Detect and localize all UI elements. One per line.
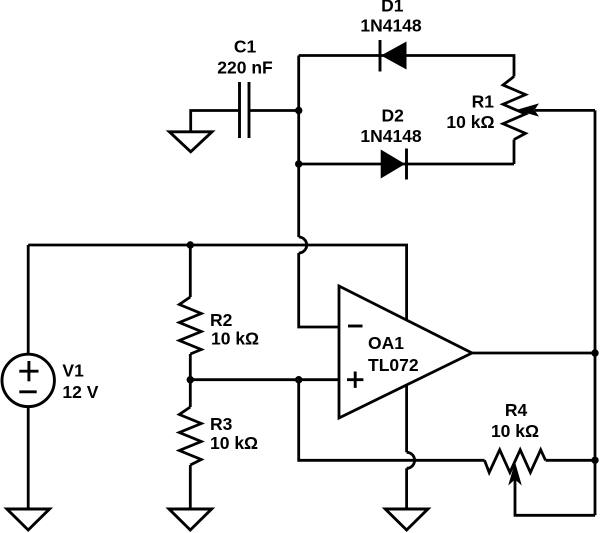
svg-text:TL072: TL072 [368, 355, 419, 375]
wire hop of column over +12V rail [299, 237, 307, 253]
resistor R3 [179, 407, 201, 465]
wire V1 top lead [27, 245, 30, 354]
svg-text:R4: R4 [505, 400, 528, 420]
V1 minus marker [19, 390, 36, 393]
wire V- lead to ground [405, 468, 408, 509]
wire R3 top lead [189, 380, 192, 407]
svg-text:10 kΩ: 10 kΩ [211, 329, 259, 349]
diode D2 [381, 149, 407, 180]
wire noninverting input net [190, 378, 339, 381]
potentiometer R4 body [485, 450, 546, 473]
wire R4 wiper loop to bus [515, 480, 595, 516]
ground at V1 [7, 509, 50, 530]
svg-text:10 kΩ: 10 kΩ [491, 421, 539, 441]
diode D1 [380, 40, 407, 72]
node dot D2 / node column [295, 160, 302, 167]
potentiometer R1 wiper arrow [516, 103, 539, 116]
wire R1 bottom lead [513, 140, 516, 165]
wire C1 left plate to ground [191, 111, 240, 132]
voltage source V1 [2, 354, 54, 406]
op-amp OA1 [339, 286, 472, 418]
svg-text:C1: C1 [234, 37, 257, 57]
ground at R3 [169, 509, 212, 530]
wire R2 bottom lead [189, 354, 192, 380]
svg-text:OA1: OA1 [368, 333, 404, 353]
wire op-amp V- pin down to hop [405, 386, 408, 453]
node dot + input branch [295, 376, 302, 383]
svg-text:R1: R1 [472, 92, 495, 112]
wire R1 wiper to bus [535, 109, 595, 112]
capacitor C1 [240, 82, 250, 138]
wire R3 bottom lead to ground [189, 465, 192, 509]
svg-text:V1: V1 [62, 361, 84, 381]
node dot R2/R3 divider [187, 376, 194, 383]
svg-text:10 kΩ: 10 kΩ [210, 433, 258, 453]
svg-text:12 V: 12 V [62, 382, 98, 402]
op-amp inverting input marker [348, 325, 363, 328]
wire R2 top lead [189, 245, 192, 297]
wire top net from node column to R1 top [299, 56, 514, 77]
wire +12V rail from V1 to op-amp V+ pin [28, 245, 406, 320]
wire node column to inverting input [299, 253, 339, 327]
svg-text:R3: R3 [210, 414, 233, 434]
svg-text:D2: D2 [382, 106, 405, 126]
resistor R2 [179, 297, 201, 354]
node dot output / bus [591, 349, 598, 356]
wire right feedback bus x=595 [594, 110, 597, 515]
svg-text:220 nF: 220 nF [217, 58, 273, 78]
wire hop of V- lead over R4 wire [407, 452, 415, 468]
ground at C1 [169, 132, 212, 152]
op-amp noninverting input marker [347, 372, 363, 388]
node dot R4 right terminal / bus [591, 457, 598, 464]
wire op-amp output [472, 352, 595, 355]
svg-text:D1: D1 [381, 0, 404, 16]
wire R4 right terminal to bus [546, 459, 596, 462]
potentiometer R1 body [503, 77, 526, 140]
svg-text:1N4148: 1N4148 [360, 126, 422, 146]
wire node column x=298.7 upper part [297, 56, 300, 238]
svg-text:10 kΩ: 10 kΩ [446, 112, 494, 132]
potentiometer R4 wiper arrow [508, 462, 522, 486]
svg-text:1N4148: 1N4148 [360, 16, 422, 36]
V1 plus marker [19, 361, 38, 381]
wire D2 net from node column to R1 bottom [299, 163, 514, 166]
ground at op-amp V- [385, 509, 428, 530]
node dot C1 / node column [295, 107, 302, 114]
wire C1 right plate to node column [249, 109, 299, 112]
node dot +12V rail / R2 top [187, 241, 194, 248]
wire from + input node down and right to R4 left terminal [299, 380, 485, 461]
svg-text:R2: R2 [210, 310, 233, 330]
wire V1 bottom lead [27, 407, 30, 509]
